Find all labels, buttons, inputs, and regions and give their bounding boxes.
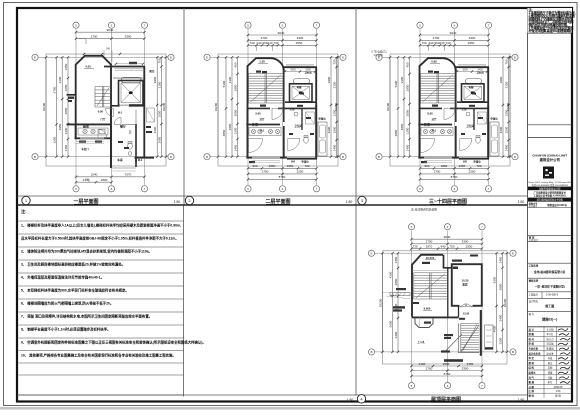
svg-text:2200: 2200 <box>498 337 502 344</box>
dimension column <box>392 253 394 352</box>
p23 mid wall 2 <box>418 124 452 126</box>
svg-text:1200: 1200 <box>405 127 409 134</box>
black bar <box>528 187 572 191</box>
wall below elevator <box>112 105 144 107</box>
svg-text:一层~屋顶层 平面图(B型): 一层~屋顶层 平面图(B型) <box>535 284 565 288</box>
svg-text:750: 750 <box>449 244 454 248</box>
balcony mini dim <box>116 63 143 65</box>
dimension row <box>76 176 145 178</box>
dimension column <box>217 57 219 156</box>
stair hall right wall <box>447 268 449 318</box>
svg-text:比 例: 比 例 <box>529 389 535 393</box>
svg-text:10、 其他事项,严格按各专业图集施工及安全有关国家现行标准: 10、 其他事项,严格按各专业图集施工及安全有关国家现行标准和各专业有关验收及施… <box>21 353 176 358</box>
text label <box>95 141 102 143</box>
text label <box>424 322 431 324</box>
grid line axis 7 <box>488 29 490 185</box>
svg-text:3300: 3300 <box>228 76 232 83</box>
dimension row <box>248 39 317 41</box>
grid bubble 6 <box>279 186 285 192</box>
dimension row <box>420 178 489 180</box>
svg-text:卫生间: 卫生间 <box>294 124 302 128</box>
title block rule <box>528 32 573 34</box>
svg-text:3300: 3300 <box>400 76 404 83</box>
svg-text:过厅: 过厅 <box>260 117 265 121</box>
dim hooks top <box>427 45 429 51</box>
svg-text:9.000: 9.000 <box>424 307 431 311</box>
lower stair boundary <box>458 323 479 352</box>
svg-text:建 施: 建 施 <box>555 394 561 398</box>
signature row 设计总负责 <box>528 355 573 357</box>
text label <box>444 359 463 362</box>
svg-text:750: 750 <box>504 59 508 64</box>
svg-text:1400: 1400 <box>504 144 508 151</box>
svg-text:阳台: 阳台 <box>149 69 155 73</box>
door <box>249 139 263 153</box>
signature row 制 图 <box>528 335 573 337</box>
svg-text:施工图: 施工图 <box>545 303 554 308</box>
grid bubble 6 <box>279 22 285 28</box>
svg-text:工程名称: 工程名称 <box>529 263 539 267</box>
wall top band north <box>104 66 145 68</box>
svg-text:8750: 8750 <box>444 372 451 376</box>
kitchen stove <box>99 129 105 134</box>
grid bubble 5 <box>417 22 423 28</box>
door <box>272 108 283 119</box>
svg-text:1550: 1550 <box>459 164 466 168</box>
dimension column <box>161 57 163 156</box>
dimension column <box>502 57 504 156</box>
grid bubble 6 <box>451 186 457 192</box>
wall south right <box>287 158 317 160</box>
svg-text:750: 750 <box>332 59 336 64</box>
svg-text:2400: 2400 <box>498 314 502 321</box>
company logo <box>543 167 554 179</box>
dimension row <box>412 365 483 367</box>
stairs <box>249 73 284 75</box>
signature row 给排水 <box>528 374 573 376</box>
p1 window sill lines <box>76 141 104 143</box>
dimension frame <box>46 54 166 166</box>
text label <box>289 133 293 135</box>
grid bubble 5 <box>73 22 79 28</box>
svg-text:门厅: 门厅 <box>100 117 106 121</box>
svg-text:0.7B 电梯(乙): 0.7B 电梯(乙) <box>371 50 386 54</box>
basin small <box>128 152 132 156</box>
grid line axis E <box>211 56 340 58</box>
grid bubble E <box>340 54 346 60</box>
dimension column <box>389 57 391 156</box>
text label <box>453 267 458 270</box>
wall east lower <box>487 104 489 158</box>
svg-text:建筑设计公司: 建筑设计公司 <box>540 157 561 162</box>
plan 1 group <box>32 22 174 192</box>
svg-text:空调位: 空调位 <box>318 117 326 121</box>
text label <box>413 302 419 304</box>
signature table columns <box>543 327 545 385</box>
dim hook top <box>79 39 86 44</box>
text label <box>310 133 314 135</box>
svg-text:设 计: 设 计 <box>529 327 535 331</box>
wall west lower <box>247 108 249 158</box>
dimension column <box>237 57 239 156</box>
svg-text:空调位: 空调位 <box>490 117 498 121</box>
svg-text:10200: 10200 <box>334 102 338 111</box>
svg-text:电梯: 电梯 <box>297 85 302 89</box>
svg-text:E: E <box>342 56 344 60</box>
wall under top band <box>113 77 144 79</box>
svg-text:M-1: M-1 <box>118 112 123 115</box>
svg-text:240: 240 <box>439 41 444 45</box>
svg-text:1500: 1500 <box>462 69 468 72</box>
svg-text:B: B <box>378 155 380 159</box>
grid bubble E <box>204 54 210 60</box>
bathtub <box>294 79 310 84</box>
bottom gray strip <box>0 407 580 410</box>
wall east upper <box>487 67 489 104</box>
note rule line <box>19 233 184 235</box>
svg-text:2700: 2700 <box>91 34 98 38</box>
title block rule <box>528 326 573 328</box>
svg-text:2700: 2700 <box>261 36 268 40</box>
dimension column <box>397 253 399 352</box>
lower stair diagonal 2 <box>444 334 462 353</box>
title block rule <box>528 235 573 237</box>
dimension row <box>248 178 317 180</box>
window south <box>80 137 104 139</box>
grid line axis E <box>383 56 512 58</box>
extra detail group <box>42 53 511 367</box>
grid bubble 6 <box>108 22 114 28</box>
svg-text:4850: 4850 <box>222 129 226 136</box>
note rule line <box>19 246 184 248</box>
svg-text:5100: 5100 <box>394 80 398 87</box>
elevator shaft <box>119 81 144 106</box>
door <box>444 108 455 119</box>
basin <box>294 112 298 116</box>
svg-text:-0.06: -0.06 <box>97 110 103 114</box>
p1 left wall stub <box>67 94 76 96</box>
bottom band line top <box>17 394 528 396</box>
title band line top <box>17 195 528 197</box>
grid bubble 7 <box>479 224 485 230</box>
signature row 设 计 <box>528 331 573 333</box>
svg-text:1400: 1400 <box>477 69 483 72</box>
grid bubble B <box>168 154 174 160</box>
basin <box>466 112 470 116</box>
grid bubble B <box>32 154 38 160</box>
svg-text:10.30: 10.30 <box>462 279 469 283</box>
svg-text:E: E <box>206 56 208 60</box>
svg-text:2006.08: 2006.08 <box>554 386 563 389</box>
text label <box>444 337 451 339</box>
stairs <box>461 322 479 324</box>
text label <box>260 105 266 107</box>
text label <box>256 71 261 73</box>
wall kitchen counter <box>78 128 108 135</box>
svg-text:4、 外墙保温层及屋面保温做法详见节能专篇40x40-1。: 4、 外墙保温层及屋面保温做法详见节能专篇40x40-1。 <box>21 275 104 280</box>
wall wc vertical <box>473 108 475 130</box>
text label <box>459 318 465 320</box>
svg-text:3150: 3150 <box>157 81 161 88</box>
svg-text:B: B <box>370 350 372 354</box>
svg-text:1450: 1450 <box>498 256 502 263</box>
text label <box>452 260 462 262</box>
grid line axis 5 <box>419 29 421 185</box>
grid line axis 5 <box>247 29 249 185</box>
wall mid horizontal 2 <box>278 107 316 109</box>
p23 interior dim under top wall <box>457 71 487 73</box>
text label <box>68 100 72 102</box>
svg-text:730: 730 <box>421 41 426 45</box>
lower stair diagonal <box>461 325 479 352</box>
dimension row <box>412 248 483 250</box>
dimension row <box>420 44 489 46</box>
svg-text:10200: 10200 <box>506 102 510 111</box>
dim hook <box>85 179 89 182</box>
svg-text:4950: 4950 <box>228 123 232 130</box>
dimension column <box>156 57 158 156</box>
note rule line <box>19 285 184 287</box>
svg-text:1970: 1970 <box>426 244 433 248</box>
dimension column <box>409 57 411 156</box>
dimension column <box>67 57 69 156</box>
svg-text:7070: 7070 <box>125 173 132 177</box>
svg-text:1850: 1850 <box>269 164 276 168</box>
dimension column <box>225 57 227 156</box>
title block rule <box>528 291 573 293</box>
svg-text:5600: 5600 <box>388 320 392 327</box>
svg-text:车库: 车库 <box>117 158 123 162</box>
grid bubble 7 <box>141 186 147 192</box>
svg-text:1500: 1500 <box>332 126 336 133</box>
svg-text:1.30: 1.30 <box>259 60 265 64</box>
svg-text:2650: 2650 <box>157 136 161 143</box>
svg-text:4.50: 4.50 <box>85 65 91 69</box>
dimension row <box>248 44 317 46</box>
svg-text:3300: 3300 <box>297 36 304 40</box>
wall mid horizontal 2 <box>450 107 488 109</box>
title block rule <box>528 207 573 209</box>
wall round corner <box>443 58 456 71</box>
machine room door opening <box>460 304 473 308</box>
svg-text:2550: 2550 <box>443 362 450 366</box>
text label <box>421 161 427 163</box>
svg-text:1550: 1550 <box>287 164 294 168</box>
svg-text:杆做法详图集,高度900距楼面算起。: 杆做法详图集,高度900距楼面算起。 <box>528 28 575 33</box>
svg-text:电 气: 电 气 <box>529 375 535 379</box>
svg-text:2150: 2150 <box>419 362 426 366</box>
dimension column <box>506 253 508 352</box>
svg-text:图 别: 图 别 <box>529 394 535 398</box>
elevator shaft <box>462 84 485 102</box>
wall roof top right step <box>444 255 452 268</box>
svg-text:主任设计: 主任设计 <box>529 238 539 242</box>
svg-text:2.58: 2.58 <box>290 109 295 112</box>
svg-text:1450: 1450 <box>233 144 237 151</box>
grid bubble 6 <box>451 22 457 28</box>
svg-text:国家甲级建筑设计院: 国家甲级建筑设计院 <box>539 186 561 190</box>
svg-text:1640: 1640 <box>91 173 98 177</box>
p1 balcony lines bottom <box>112 167 137 169</box>
grid line axis 5 <box>75 29 77 185</box>
door <box>460 139 472 151</box>
grid bubble B <box>368 349 374 355</box>
svg-text:空调位: 空调位 <box>473 160 481 164</box>
text label <box>441 350 450 352</box>
svg-text:10200: 10200 <box>162 102 166 111</box>
svg-text:12.00: 12.00 <box>463 312 470 316</box>
svg-text:10200: 10200 <box>386 102 390 111</box>
svg-text:1、 楼梯栏杆及扶手高度非人1A以上(见女儿墙处),楼梯栏杆: 1、 楼梯栏杆及扶手高度非人1A以上(见女儿墙处),楼梯栏杆扶手均应采用硬木及距… <box>21 223 181 228</box>
svg-text:9040: 9040 <box>107 28 114 32</box>
wall below elevator <box>457 101 488 103</box>
signature row 审 核 <box>528 345 573 347</box>
title block rule <box>528 277 573 279</box>
title block rule <box>528 262 573 264</box>
svg-text:450: 450 <box>233 62 237 67</box>
grid line axis 6 <box>282 29 284 185</box>
elevator door gap <box>120 104 130 107</box>
grid line axis B <box>39 156 168 158</box>
dimension frame <box>383 251 508 364</box>
svg-text:730: 730 <box>412 244 417 248</box>
svg-text:E: E <box>514 56 516 60</box>
svg-text:上人孔: 上人孔 <box>417 340 425 344</box>
text label <box>461 133 465 135</box>
p1 right room divider <box>135 110 137 124</box>
small dim above pentagon <box>103 50 105 56</box>
p4 left leader lines <box>383 292 411 294</box>
wall roof outline west <box>412 255 443 317</box>
svg-text:E: E <box>34 56 36 60</box>
wall center lower <box>455 126 457 159</box>
kitchen basin 1 <box>83 129 87 133</box>
stairs <box>414 272 447 274</box>
svg-text:9040: 9040 <box>278 31 285 35</box>
divider notes-plan4 <box>183 205 185 397</box>
window south <box>424 156 452 158</box>
toilet <box>476 137 481 143</box>
svg-text:8.60: 8.60 <box>427 112 433 116</box>
svg-text:M-2: M-2 <box>138 159 143 162</box>
svg-text:2700: 2700 <box>426 240 433 244</box>
svg-text:3900: 3900 <box>327 76 331 83</box>
notes block <box>19 208 206 395</box>
svg-text:2350: 2350 <box>467 362 474 366</box>
dimension column <box>397 57 399 156</box>
grid bubble 6 <box>108 186 114 192</box>
svg-text:3250: 3250 <box>52 136 56 143</box>
svg-text:B: B <box>206 155 208 159</box>
svg-text:1:50: 1:50 <box>347 398 354 402</box>
svg-text:1800: 1800 <box>101 178 108 182</box>
svg-text:4950: 4950 <box>58 123 62 130</box>
svg-text:1650: 1650 <box>64 84 68 91</box>
grid bubble B <box>340 154 346 160</box>
wall left lower <box>75 124 77 139</box>
svg-text:2700: 2700 <box>433 36 440 40</box>
p23 interior dim under top wall <box>285 71 315 73</box>
text label <box>393 309 402 311</box>
text label <box>129 62 137 64</box>
note rule line <box>19 374 184 376</box>
svg-text:750: 750 <box>157 58 161 63</box>
grid bubble 7 <box>485 186 491 192</box>
grid line axis 6 <box>111 29 113 185</box>
dimension frame <box>218 54 338 166</box>
svg-text:2.58: 2.58 <box>462 109 467 112</box>
text label <box>393 306 405 308</box>
AC platform <box>318 122 327 156</box>
grid line axis E <box>375 252 510 254</box>
wall east upper <box>315 67 317 104</box>
svg-text:8750: 8750 <box>279 175 286 179</box>
title block rule <box>528 310 573 312</box>
svg-text:结 构: 结 构 <box>529 366 535 370</box>
text label <box>482 133 486 135</box>
dimension row <box>76 181 112 183</box>
svg-text:9040: 9040 <box>444 235 451 239</box>
grid bubble 7 <box>313 186 319 192</box>
cert row <box>528 201 573 203</box>
svg-text:5.80: 5.80 <box>431 60 437 64</box>
svg-text:450: 450 <box>405 62 409 67</box>
dimension row <box>248 173 317 175</box>
svg-text:2440: 2440 <box>83 178 90 182</box>
dimension row <box>76 31 145 33</box>
black bar 2 <box>528 198 572 202</box>
wall top band east section <box>284 66 318 68</box>
svg-text:2550: 2550 <box>466 244 473 248</box>
wall south right <box>459 158 489 160</box>
svg-text:10200: 10200 <box>214 102 218 111</box>
svg-text:餐厅: 餐厅 <box>119 123 126 128</box>
svg-text:卫生间: 卫生间 <box>466 124 474 128</box>
dimension row <box>412 375 483 377</box>
svg-text:注:: 注: <box>21 208 27 215</box>
svg-text:1500: 1500 <box>504 126 508 133</box>
svg-text:3300: 3300 <box>58 76 62 83</box>
dimension row <box>76 38 145 40</box>
panel divider 2-3 <box>355 8 357 205</box>
text label <box>469 105 475 107</box>
dimension column <box>56 57 58 156</box>
svg-text:2250: 2250 <box>469 170 476 174</box>
text label <box>118 141 123 143</box>
panel 2 label circle <box>185 196 193 204</box>
svg-text:1.0 选用: 1.0 选用 <box>373 53 383 57</box>
wall stair hall pentagon with round corner <box>248 58 271 158</box>
title block rule <box>528 241 573 243</box>
signature row 结 构 <box>528 369 573 371</box>
dimension row <box>412 243 483 245</box>
svg-text:3900: 3900 <box>499 76 503 83</box>
machine room double door <box>460 304 466 307</box>
dimension column <box>61 57 63 156</box>
p23 basin row <box>423 129 427 133</box>
note rule line <box>19 298 184 300</box>
p1 closet <box>147 108 155 122</box>
note rule line <box>19 259 184 261</box>
text label <box>146 126 151 128</box>
svg-text:E: E <box>170 56 172 60</box>
kitchen basin 2 <box>91 129 95 133</box>
grid bubble E <box>168 54 174 60</box>
AC platform <box>490 122 499 156</box>
grid line axis 6 <box>447 231 449 383</box>
svg-text:建施03(一): 建施03(一) <box>541 317 557 322</box>
divider plan4-left <box>355 205 357 395</box>
